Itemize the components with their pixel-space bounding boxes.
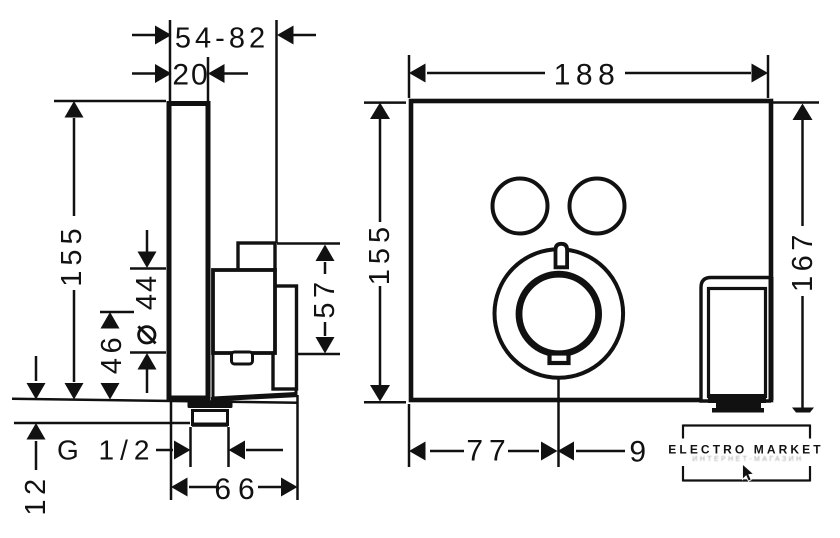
svg-text:ELECTRO MARKET: ELECTRO MARKET <box>668 443 823 457</box>
svg-text:46: 46 <box>96 333 128 374</box>
svg-text:66: 66 <box>214 473 261 506</box>
svg-text:12: 12 <box>20 474 52 515</box>
svg-text:57: 57 <box>309 277 341 318</box>
svg-text:188: 188 <box>554 59 621 92</box>
svg-text:44: 44 <box>131 274 163 310</box>
svg-text:167: 167 <box>787 230 819 292</box>
svg-text:155: 155 <box>56 223 88 286</box>
svg-text:9: 9 <box>629 436 650 469</box>
svg-text:155: 155 <box>364 222 396 285</box>
svg-text:77: 77 <box>466 435 511 468</box>
svg-text:G 1/2: G 1/2 <box>57 435 155 466</box>
svg-text:ИНТЕРНЕТ-МАГАЗИН: ИНТЕРНЕТ-МАГАЗИН <box>692 456 803 463</box>
svg-text:54-82: 54-82 <box>175 23 269 55</box>
svg-text:20: 20 <box>172 59 209 92</box>
